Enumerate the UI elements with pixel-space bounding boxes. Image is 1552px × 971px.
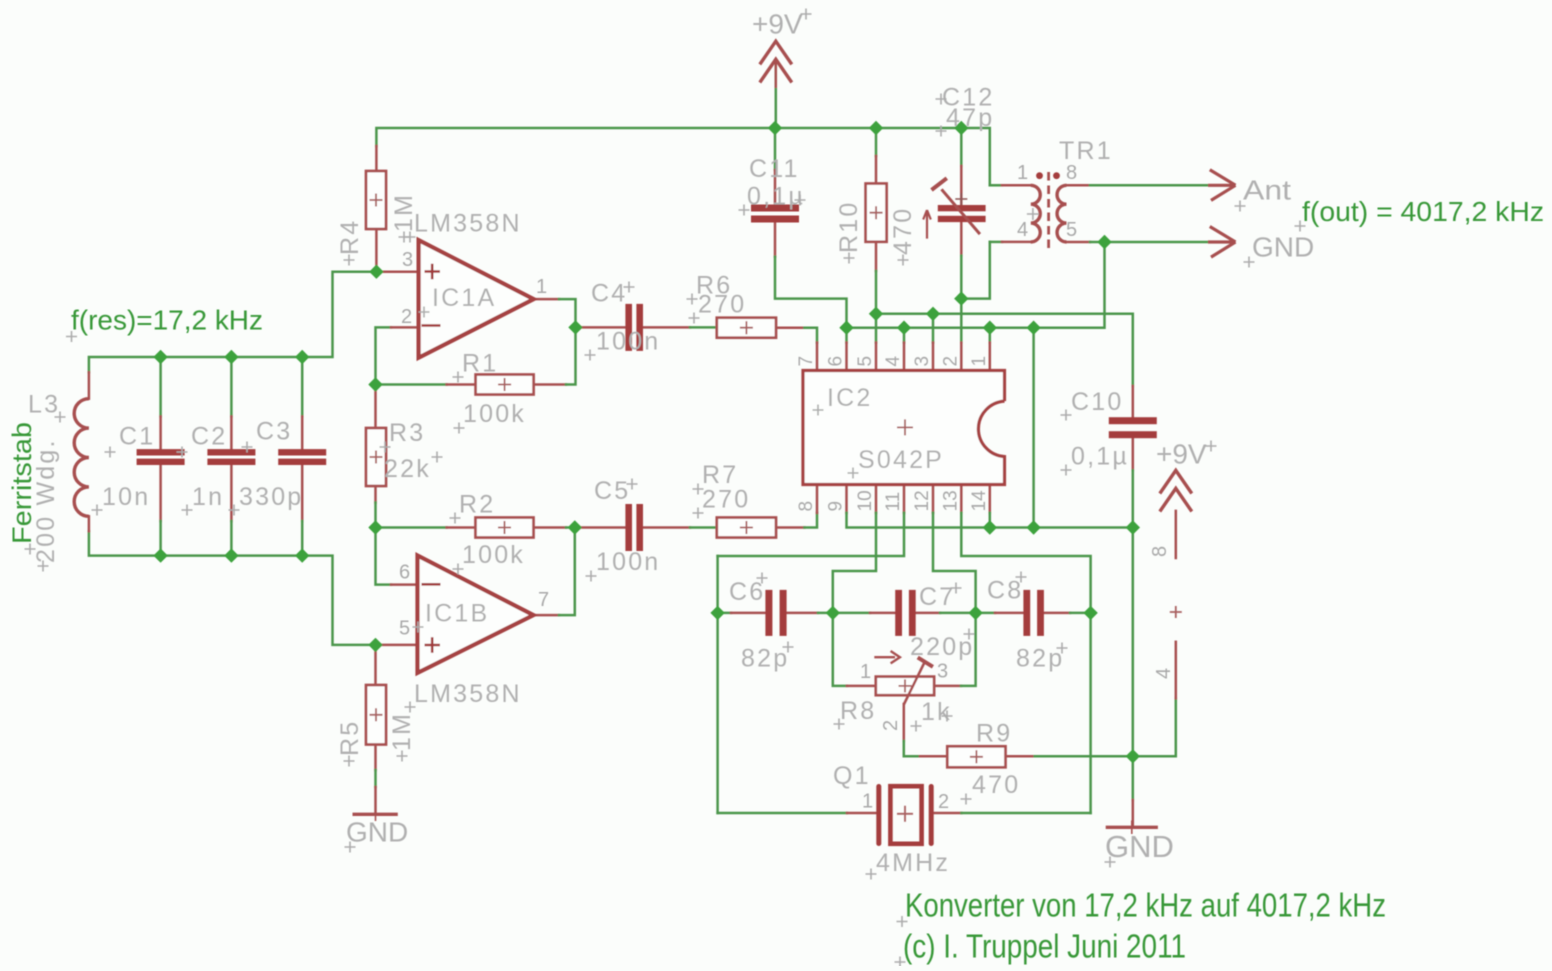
wire C6 left stub xyxy=(731,612,765,615)
origin cross GND right xyxy=(1105,857,1116,868)
junction C8 right xyxy=(1083,606,1097,620)
wire pin14 to GND row xyxy=(989,513,992,528)
origin cross Q1 xyxy=(866,869,877,880)
capacitor C5 xyxy=(625,504,643,551)
wire R10 bottom stub xyxy=(875,242,878,271)
wire IC2 pin8 stub xyxy=(816,485,819,513)
wire R8 pin1 stub xyxy=(847,685,876,688)
origin cross GND left xyxy=(345,842,356,853)
origin cross C7 xyxy=(951,583,962,594)
wire GND right pin green xyxy=(1132,756,1135,800)
capacitor C8 xyxy=(1023,590,1044,636)
wire Q1 pin1 stub xyxy=(847,812,876,815)
wire pin11 to C6 left node xyxy=(718,513,904,556)
svg-text:(c) I. Truppel Juni 2011: (c) I. Truppel Juni 2011 xyxy=(903,928,1186,965)
origin cross 470 R10 xyxy=(898,255,909,266)
svg-text:0,1µ: 0,1µ xyxy=(1071,443,1129,471)
resistor R1 xyxy=(476,375,534,395)
op-amp IC1A xyxy=(419,240,534,358)
svg-text:C10: C10 xyxy=(1071,388,1123,416)
origin cross R6 xyxy=(687,294,698,305)
resistor R2 xyxy=(476,518,534,538)
wire R5 to GND xyxy=(374,770,377,787)
transformer TR1 core xyxy=(1047,172,1050,250)
svg-text:7: 7 xyxy=(538,589,549,611)
wire TR1 pin8 stub xyxy=(1067,184,1091,187)
origin cross R3 xyxy=(380,442,391,453)
origin cross copyright xyxy=(895,957,906,968)
svg-text:2: 2 xyxy=(401,306,412,328)
origin cross 1k xyxy=(911,721,922,732)
wire C2 top stub xyxy=(230,417,233,450)
svg-text:5: 5 xyxy=(1066,219,1077,241)
svg-text:3: 3 xyxy=(912,356,933,367)
svg-text:6: 6 xyxy=(826,356,847,367)
wire junction to GND pad arrow xyxy=(1105,241,1209,244)
svg-text:R10: R10 xyxy=(835,201,863,253)
origin cross C1 xyxy=(105,447,116,458)
wire R9 to GND junction xyxy=(1035,755,1133,758)
wire R7 to IC2 pin8 xyxy=(804,513,817,528)
wire IC2 pin9 stub xyxy=(845,485,848,513)
GND output pad arrow xyxy=(1208,227,1236,258)
resistor R4 xyxy=(366,171,386,229)
wire C4 right stub xyxy=(642,326,690,329)
svg-text:470: 470 xyxy=(972,771,1020,799)
capacitor C10 xyxy=(1109,417,1157,438)
svg-text:Ant: Ant xyxy=(1243,175,1291,206)
svg-text:1: 1 xyxy=(969,356,990,367)
svg-text:200 Wdg.: 200 Wdg. xyxy=(32,438,60,563)
origin cross 100n C5 xyxy=(586,571,597,582)
wire IC2 pin5 stub xyxy=(875,343,878,371)
junction R2 left node xyxy=(368,520,382,534)
junction row2 pin6 xyxy=(839,321,853,335)
wire IC1 pin4 stub xyxy=(1175,642,1178,699)
svg-text:47p: 47p xyxy=(946,104,994,132)
wire R6 right stub xyxy=(776,326,804,329)
svg-text:C4: C4 xyxy=(591,280,627,308)
svg-text:2: 2 xyxy=(938,791,949,813)
origin cross C5 xyxy=(627,479,638,490)
origin cross IC2 xyxy=(813,405,824,416)
wire C11 bottom stub xyxy=(774,223,777,257)
wire TR1 pin4 stub xyxy=(1002,241,1031,244)
svg-text:C8: C8 xyxy=(987,577,1023,605)
origin cross S042P xyxy=(848,468,859,479)
origin cross 82p C8 xyxy=(1057,643,1068,654)
origin cross R10 xyxy=(844,253,855,264)
origin cross R2 xyxy=(450,513,461,524)
wire R7 right stub xyxy=(776,526,804,529)
svg-text:10n: 10n xyxy=(102,483,150,511)
wire C8 left stub xyxy=(995,612,1023,615)
svg-text:R2: R2 xyxy=(459,491,495,519)
origin cross C11 xyxy=(739,205,750,216)
wire top +9V bus xyxy=(376,128,1002,185)
wire C12 top stub xyxy=(960,166,963,205)
wire C1 top stub xyxy=(159,417,162,450)
svg-text:GND: GND xyxy=(346,817,408,848)
capacitor C6 xyxy=(765,590,786,636)
junction tank top C1 xyxy=(153,350,167,364)
svg-text:Konverter von 17,2 kHz auf 401: Konverter von 17,2 kHz auf 4017,2 kHz xyxy=(905,887,1386,924)
wire R5 top stub xyxy=(374,645,377,685)
junction C6 left xyxy=(710,606,724,620)
capacitor C3 xyxy=(278,449,326,465)
origin cross C10 xyxy=(1061,410,1072,421)
wire wiper to R9 xyxy=(904,741,920,756)
wire C1 bottom column xyxy=(159,521,162,556)
origin cross R9 xyxy=(942,711,953,722)
wire C3 top column xyxy=(301,357,304,417)
wire pin2 node down xyxy=(960,299,963,343)
wire R4 top pin stub xyxy=(375,146,378,171)
svg-text:2: 2 xyxy=(940,356,961,367)
junction row2 pin4 xyxy=(897,321,911,335)
origin cross 47p xyxy=(936,126,947,137)
wire L3 top stub xyxy=(88,372,91,398)
origin cross 270 R6 xyxy=(689,313,700,324)
resistor R6 xyxy=(717,318,776,338)
junction tank bottom C1 xyxy=(153,548,167,562)
transformer TR1 polarity dot pin8 xyxy=(1053,172,1060,179)
wire row2 pin4 branch xyxy=(903,328,906,343)
svg-text:f(res)=17,2 kHz: f(res)=17,2 kHz xyxy=(71,305,263,336)
wire R10 to row1 xyxy=(875,271,878,314)
wire C7 left stub xyxy=(870,612,895,615)
wire IC2 pin4 stub xyxy=(903,343,906,371)
origin cross 100n C4 xyxy=(585,350,596,361)
svg-text:22k: 22k xyxy=(384,455,431,483)
wire IC1A pin2 stub xyxy=(391,326,419,329)
junction tank top C2 xyxy=(224,350,238,364)
wire tank bottom bus to IC1A... IC1B pin5 xyxy=(89,531,376,645)
wire row2 to bottom GND row xyxy=(1032,328,1035,528)
svg-text:R1: R1 xyxy=(462,350,498,378)
transformer TR1 primary winding xyxy=(1031,185,1040,242)
junction tank bottom C2 xyxy=(224,548,238,562)
wire C12 bottom stub xyxy=(960,222,963,256)
wire R3 top stub xyxy=(374,385,377,429)
wire GND junction to IC1 pin4 xyxy=(1133,698,1176,756)
svg-text:GND: GND xyxy=(1105,829,1174,864)
junction +9V bus / C12 xyxy=(954,121,968,135)
origin cross 10n xyxy=(92,505,103,516)
+9V supply symbol (right, IC1 pin 8) xyxy=(1160,470,1192,618)
svg-text:6: 6 xyxy=(399,562,410,584)
svg-text:C11: C11 xyxy=(749,155,800,183)
origin cross Ant xyxy=(1235,201,1246,212)
origin cross LM358N B xyxy=(405,702,416,713)
wire C5 right stub xyxy=(642,526,690,529)
resistor R9 xyxy=(947,746,1005,767)
svg-text:R8: R8 xyxy=(840,697,876,725)
origin cross R8 xyxy=(834,719,845,730)
wire C2 top column xyxy=(230,357,233,417)
origin cross GND pad xyxy=(1244,257,1255,268)
junction TR1 pin5 GND xyxy=(1097,235,1111,249)
svg-text:f(out) = 4017,2 kHz: f(out) = 4017,2 kHz xyxy=(1302,196,1544,227)
wire IC2 pin12 stub xyxy=(932,485,935,513)
wire TR1 pin1 lead xyxy=(990,184,1002,187)
origin cross C6 xyxy=(757,573,768,584)
wire row1 pin3 branch xyxy=(932,314,935,343)
svg-text:+9V: +9V xyxy=(1156,439,1207,470)
wire pin10 to C6/C7 node xyxy=(833,513,876,613)
svg-text:1M: 1M xyxy=(388,712,416,751)
wire C8 right stub xyxy=(1044,612,1070,615)
wire IC1A output to C4 node xyxy=(559,299,576,327)
wire IC2 pin2 stub xyxy=(960,343,963,371)
resistor R7 xyxy=(717,518,776,538)
svg-text:10: 10 xyxy=(855,490,876,511)
origin cross L3 xyxy=(55,412,66,423)
svg-text:R3: R3 xyxy=(389,419,425,447)
wire R2 row left xyxy=(376,526,447,529)
wire IC1B output to C5 node xyxy=(559,528,575,616)
svg-text:1: 1 xyxy=(1017,162,1028,184)
svg-text:82p: 82p xyxy=(741,645,789,673)
svg-text:1: 1 xyxy=(860,661,871,683)
crystal Q1 xyxy=(876,784,933,846)
junction GND row mid xyxy=(1026,520,1040,534)
svg-text:+9V: +9V xyxy=(752,9,803,40)
origin cross R5 xyxy=(344,756,355,767)
wire GND right pin xyxy=(1132,800,1135,827)
junction row2 pin1 xyxy=(983,321,997,335)
wire TR1 pin8 to Ant xyxy=(1090,184,1208,187)
wire +9V supply feed to top bus xyxy=(775,60,778,128)
origin cross 01u C10 xyxy=(1061,465,1072,476)
wire R6 to IC2 pin7 xyxy=(804,328,817,343)
junction +9V bus / R10 xyxy=(869,121,883,135)
junction +9V bus / C11 xyxy=(768,121,782,135)
origin cross C4 xyxy=(624,282,635,293)
origin cross 100k R1 xyxy=(454,423,465,434)
wire row1 pin5 branch xyxy=(875,314,878,343)
svg-text:13: 13 xyxy=(940,490,961,511)
wire R9 right stub xyxy=(1006,755,1035,758)
transformer TR1 origin cross xyxy=(1027,208,1039,220)
wire row1 horizontal to C10 xyxy=(876,314,1133,386)
wire GND left pin xyxy=(374,787,377,814)
junction R9/GND/+9V xyxy=(1126,749,1140,763)
origin cross R7 xyxy=(693,484,704,495)
wire L3 bottom stub xyxy=(88,516,91,531)
origin cross 200Wdg xyxy=(38,561,49,572)
origin cross f(out) xyxy=(1295,221,1306,232)
wire R8 pin3 to node xyxy=(961,613,976,686)
wire IC2 pin1 stub xyxy=(989,343,992,371)
wire IC1B pin6 stub xyxy=(391,583,418,586)
svg-text:8: 8 xyxy=(1066,162,1077,184)
wire R10 top stub xyxy=(875,156,878,184)
IC IC2 S042P body xyxy=(803,371,1005,485)
wire C10 bottom stub xyxy=(1132,438,1135,470)
wire C7 left lead xyxy=(833,612,870,615)
svg-text:14: 14 xyxy=(969,490,990,512)
wire row2 pin6 stub green xyxy=(845,328,848,343)
svg-text:11: 11 xyxy=(883,492,904,512)
svg-text:3: 3 xyxy=(402,249,413,271)
svg-text:C5: C5 xyxy=(594,477,630,505)
wire IC2 pin11 stub xyxy=(903,485,906,513)
wire pin12 to C7/C8 node xyxy=(933,513,976,613)
transformer TR1 polarity dot pin1 xyxy=(1036,172,1043,179)
wire IC1A pin3 stub xyxy=(376,270,418,273)
svg-text:4: 4 xyxy=(1017,219,1028,241)
junction IC1A pin3 node xyxy=(369,265,383,279)
wire R2 to C5 node xyxy=(566,526,575,529)
capacitor C7 xyxy=(895,590,916,636)
wire IC1B pin5 stub xyxy=(376,644,418,647)
transformer TR1 secondary winding xyxy=(1057,185,1066,242)
op-amp IC1B xyxy=(418,556,534,673)
origin cross 22k xyxy=(432,452,443,463)
wire R5 bottom stub xyxy=(374,745,377,771)
svg-text:100n: 100n xyxy=(596,328,660,356)
junction row1 R10/pin5 xyxy=(869,307,883,321)
wire R4 bottom pin stub xyxy=(375,229,378,272)
wire IC1A pin3 net to tank xyxy=(89,272,377,373)
wire C3 bottom column xyxy=(301,521,304,556)
wire C1 top column xyxy=(159,357,162,417)
origin cross C12 xyxy=(936,94,947,105)
svg-text:5: 5 xyxy=(399,618,410,640)
svg-text:IC1B: IC1B xyxy=(425,600,489,628)
origin cross IC1A xyxy=(419,307,430,318)
origin cross R1 xyxy=(453,372,464,383)
wire IC2 pin14 stub xyxy=(989,485,992,513)
junction GND row C10 xyxy=(1126,520,1140,534)
wire pin13 to C8 right node xyxy=(961,513,1090,613)
svg-text:C6: C6 xyxy=(729,578,765,606)
origin cross 1n xyxy=(182,505,193,516)
resistor R10 xyxy=(866,184,887,242)
svg-text:100k: 100k xyxy=(463,400,526,428)
wire row2 pin1 branch xyxy=(989,328,992,343)
wire IC1 pin8 stub xyxy=(1175,511,1178,558)
wire IC2 pin3 stub xyxy=(932,343,935,371)
wire IC2 pin7 stub xyxy=(816,343,819,371)
origin cross +9V top xyxy=(801,9,812,20)
wire R10 top column xyxy=(875,128,878,156)
wire C10 bottom column xyxy=(1132,470,1135,527)
origin cross Konverter xyxy=(897,916,908,927)
wire C6 to node xyxy=(818,612,833,615)
svg-text:8: 8 xyxy=(1149,546,1171,557)
svg-text:IC1A: IC1A xyxy=(432,284,496,312)
+9V supply symbol (top) xyxy=(760,41,792,88)
wire C12 to pin2 node xyxy=(960,256,963,299)
wire R6 left stub is merged xyxy=(716,326,719,329)
wire TR1 pin5 to junction xyxy=(1090,241,1105,244)
origin cross f(res) xyxy=(66,331,77,342)
svg-text:12: 12 xyxy=(912,490,933,511)
capacitor C11 xyxy=(751,205,799,223)
svg-text:2: 2 xyxy=(880,720,902,731)
wire C5 left stub xyxy=(575,526,626,529)
wire node to R8 pin1 xyxy=(833,613,847,686)
wire IC1B pin6 branch xyxy=(376,528,392,585)
origin cross LM358N A xyxy=(405,232,416,243)
potentiometer R8 xyxy=(874,651,934,705)
origin cross 82p C6 xyxy=(783,642,794,653)
svg-text:R4: R4 xyxy=(336,219,364,255)
svg-text:R9: R9 xyxy=(976,720,1012,748)
wire R3 to R2 node xyxy=(374,503,377,528)
wire Q1 pin2 stub xyxy=(934,812,962,815)
wire C11 top column xyxy=(774,128,777,170)
svg-text:100k: 100k xyxy=(462,541,525,569)
svg-text:C3: C3 xyxy=(256,418,292,446)
svg-text:LM358N: LM358N xyxy=(414,680,522,708)
wire TR1 pin4 lead green xyxy=(990,241,1002,244)
wire IC1A pin2 branch xyxy=(376,327,392,384)
origin cross 270 R7 xyxy=(693,508,704,519)
wire C2 bottom column xyxy=(230,521,233,556)
wire TR1 pin5 stub xyxy=(1067,241,1091,244)
wire R2 right stub xyxy=(534,526,567,529)
wire C11 to IC2 pin6 node xyxy=(775,257,847,328)
svg-text:4MHz: 4MHz xyxy=(876,849,950,877)
svg-text:C2: C2 xyxy=(191,423,227,451)
GND symbol (bottom right) xyxy=(1106,821,1158,835)
wire C6 left column xyxy=(716,556,719,813)
wire R1 right stub xyxy=(534,383,566,386)
svg-text:330p: 330p xyxy=(239,483,303,511)
svg-text:220p: 220p xyxy=(910,633,974,661)
wire C1 bottom stub xyxy=(159,465,162,521)
svg-text:L3: L3 xyxy=(28,391,60,419)
wire R2 left stub xyxy=(447,526,476,529)
junction row1 pin3 xyxy=(926,307,940,321)
wire GND row over IC2 xyxy=(847,242,1105,328)
junction tank top C3 xyxy=(295,350,309,364)
origin cross 100k R2 xyxy=(453,564,464,575)
svg-text:1n: 1n xyxy=(192,483,224,511)
capacitor C1 xyxy=(137,449,185,465)
wire R8 wiper stub xyxy=(903,704,906,741)
resistor R3 xyxy=(366,428,386,486)
svg-text:470: 470 xyxy=(889,207,917,255)
wire IC2 pin13 stub xyxy=(960,485,963,513)
wire IC2 pin10 stub xyxy=(875,485,878,513)
GND symbol (below R5) xyxy=(353,808,398,822)
wire crystal row right xyxy=(961,812,1090,815)
wire C8 right column to crystal xyxy=(1089,613,1092,813)
junction IC1B pin5 node xyxy=(368,638,382,652)
junction pin2 net xyxy=(954,291,968,305)
junction row2 GND drop xyxy=(1026,321,1040,335)
wire IC2 pin6 stub xyxy=(845,343,848,371)
svg-text:100n: 100n xyxy=(596,548,660,576)
wire C8 to node xyxy=(1070,612,1091,615)
svg-text:IC2: IC2 xyxy=(827,384,873,412)
wire R8 pin3 stub xyxy=(934,685,961,688)
origin cross Ferritstab xyxy=(25,544,36,555)
wire C6 left lead xyxy=(718,612,731,615)
svg-text:1: 1 xyxy=(862,791,873,813)
junction R1 left node xyxy=(368,377,382,391)
wire C11 top stub xyxy=(774,170,777,205)
origin cross 1M R5 xyxy=(397,751,408,762)
wire pin2 node to TR1 pin4 corner xyxy=(961,242,990,299)
svg-text:GND: GND xyxy=(1252,232,1314,263)
wire C3 top stub xyxy=(301,417,304,450)
wire R1 to C4 node xyxy=(566,327,576,384)
